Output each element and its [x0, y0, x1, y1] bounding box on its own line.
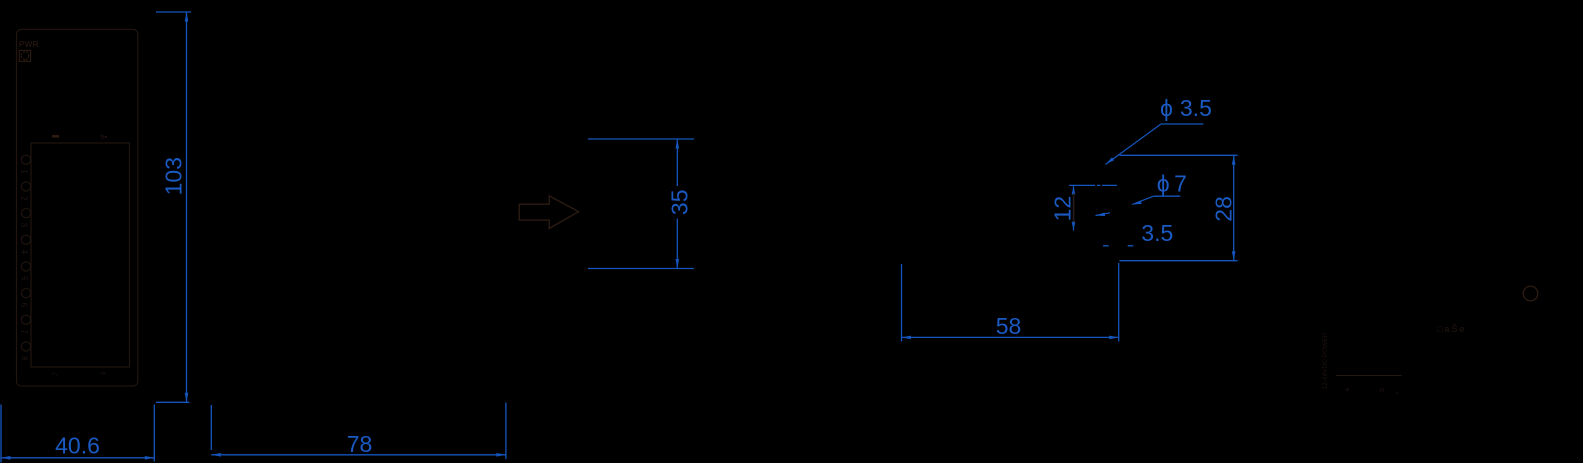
- dimension 40.6 arrow right: [145, 456, 155, 460]
- dimension 35 line upper: [676, 139, 678, 186]
- dimension 58 arrow left: [902, 336, 912, 340]
- dimension 12 arrow bottom: [1072, 222, 1076, 231]
- svg-text:⌄: ⌄: [1394, 389, 1400, 396]
- terminal circle 1: [21, 155, 30, 164]
- label phi3.5 leader: [1106, 124, 1162, 165]
- svg-text:4: 4: [19, 249, 28, 254]
- terminal circle 4: [21, 235, 30, 244]
- svg-text:1: 1: [19, 169, 28, 174]
- svg-text:12-48VDC POWER: 12-48VDC POWER: [1322, 332, 1329, 389]
- dimension 58 extension right: [1118, 263, 1120, 342]
- dimension 35 top line: [588, 138, 694, 140]
- dimension 28 arrow top: [1232, 155, 1236, 165]
- front view module outline: [17, 29, 138, 386]
- svg-text:h•: h•: [101, 134, 108, 141]
- dimension 28 arrow bottom: [1232, 251, 1236, 261]
- dimension 78 extension right: [505, 403, 507, 460]
- svg-text:PWR: PWR: [19, 40, 39, 49]
- svg-text:40.6: 40.6: [55, 433, 100, 459]
- dimension 28 extension top: [1120, 154, 1238, 156]
- svg-text:∞: ∞: [101, 371, 105, 377]
- right faint horizontal line: [1336, 375, 1402, 377]
- svg-text:3.5: 3.5: [1141, 220, 1173, 246]
- label phi7 leader arrow: [1132, 201, 1142, 205]
- dimension 58 arrow right: [1109, 336, 1119, 340]
- svg-text:58: 58: [996, 313, 1022, 339]
- dimension 78 arrow right: [496, 453, 506, 457]
- dimension 28 line: [1233, 155, 1235, 260]
- label 3.5 leader arrow: [1096, 213, 1106, 217]
- dimension 103 arrow bottom: [185, 393, 189, 403]
- dimension 12 dark overlap segment: [1073, 193, 1075, 222]
- dimension 40.6 arrow left: [1, 456, 11, 460]
- right faint circle: [1523, 286, 1538, 301]
- svg-text:ϕ3.5: ϕ3.5: [1160, 95, 1212, 121]
- svg-text:+: +: [1345, 385, 1350, 394]
- keyhole center line dash-dot: [1069, 184, 1117, 186]
- svg-text:6: 6: [19, 303, 28, 308]
- terminal circle 5: [21, 262, 30, 271]
- svg-text:7: 7: [19, 329, 28, 334]
- dimension 12 line: [1073, 186, 1075, 231]
- terminal cover inner rectangle: [31, 143, 130, 367]
- svg-text:ϕ 7: ϕ 7: [1157, 171, 1187, 197]
- label phi3.5 underline: [1161, 123, 1204, 125]
- direction arrow symbol: [519, 196, 578, 229]
- svg-text:□aŜe: □aŜe: [1437, 324, 1466, 334]
- dimension 28 extension bottom: [1120, 260, 1238, 262]
- svg-text:8: 8: [19, 356, 28, 361]
- svg-text:3: 3: [19, 223, 28, 228]
- dimension 35 line lower: [676, 219, 678, 269]
- dimension 35 arrow bottom: [676, 259, 680, 269]
- svg-text:35: 35: [667, 190, 693, 216]
- dimension 78 extension left: [210, 405, 212, 450]
- dimension 58 extension left: [901, 264, 903, 342]
- PWR LED square icon: [19, 50, 30, 61]
- svg-text:78: 78: [347, 431, 373, 457]
- svg-text:2: 2: [19, 196, 28, 201]
- keyhole hidden dashed line: [1103, 245, 1135, 247]
- terminal circle 7: [21, 315, 30, 324]
- dimension 103 arrow top: [185, 12, 189, 22]
- dimension 103 extension line bottom: [156, 401, 189, 403]
- dimension 40.6 extension left: [0, 405, 2, 463]
- label phi3.5 leader arrow: [1106, 157, 1115, 164]
- dimension 103 extension line top: [156, 11, 191, 13]
- dimension 78 line: [211, 454, 506, 456]
- svg-text:⌐‸: ⌐‸: [52, 371, 58, 377]
- svg-text:5: 5: [19, 276, 28, 281]
- svg-text:12: 12: [1050, 196, 1076, 222]
- terminal circle 3: [21, 209, 30, 218]
- label phi7 leader: [1132, 196, 1154, 204]
- terminal circle 2: [21, 182, 30, 191]
- dimension 12 arrow top: [1072, 186, 1076, 195]
- svg-text:28: 28: [1211, 196, 1237, 222]
- dimension 35 arrow top: [676, 139, 680, 149]
- label 3.5 leader tail: [1096, 213, 1111, 216]
- dimension 40.6 extension right: [153, 405, 155, 462]
- terminal circle 6: [21, 289, 30, 298]
- dimension 35 bottom line: [588, 268, 694, 270]
- terminal circle 8: [21, 342, 30, 351]
- dimension 103 line: [186, 12, 188, 402]
- tiny label above terminal block left: [52, 135, 59, 138]
- label phi7 underline: [1154, 195, 1181, 197]
- dimension 40.6 line: [1, 457, 154, 459]
- svg-text:103: 103: [161, 157, 187, 195]
- dimension 58 line: [902, 336, 1119, 338]
- dimension 78 arrow left: [211, 453, 221, 457]
- svg-text:n: n: [1380, 387, 1384, 394]
